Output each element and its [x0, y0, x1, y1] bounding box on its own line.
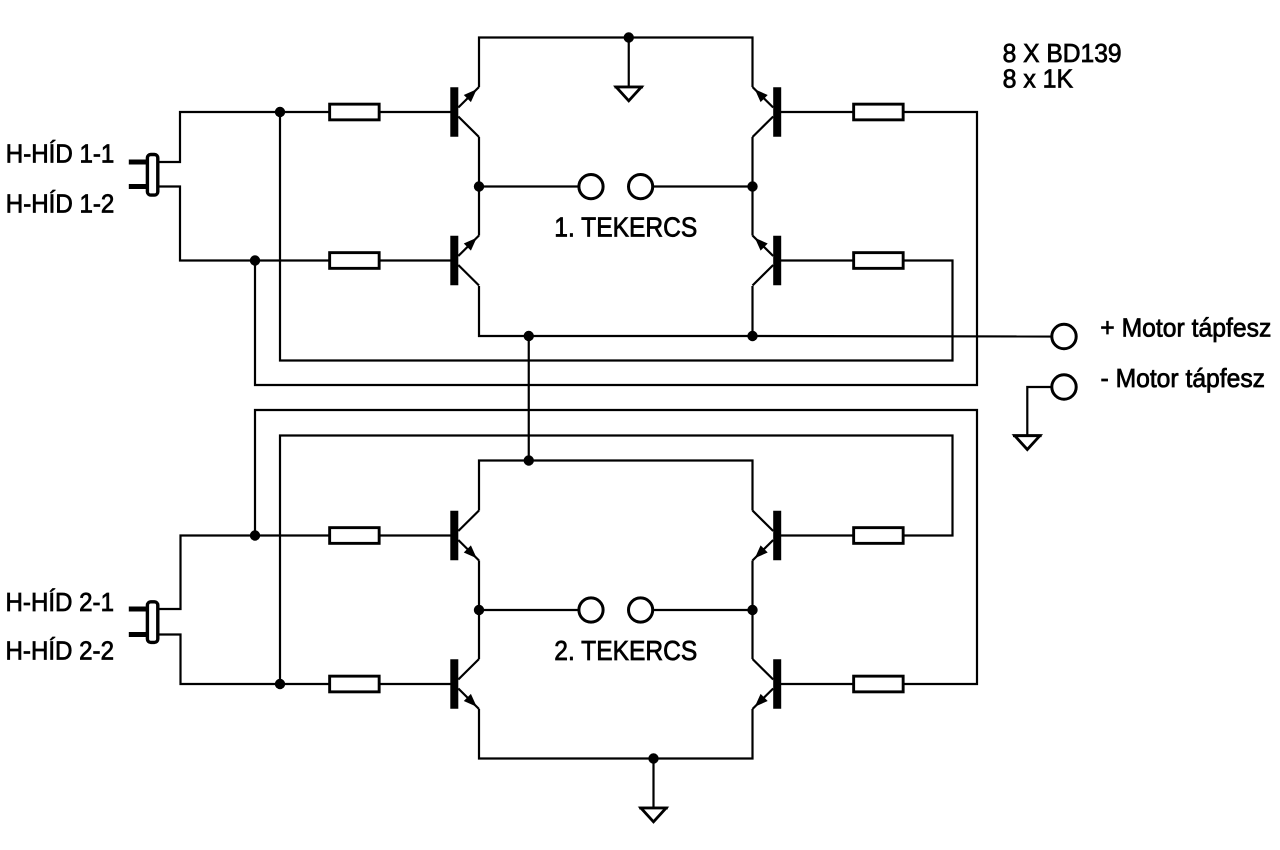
wire coil 1 left terminal lead [479, 185, 579, 187]
node dot drive 1-1 junction [275, 107, 285, 117]
node dot coil 1 right [747, 181, 757, 191]
terminal circle coil 1 right [629, 175, 653, 199]
terminal circle - motor tapfesz [1052, 375, 1076, 399]
wire ground stem bottom [652, 759, 654, 809]
resistor R4 (1K base bottom-right) [854, 253, 904, 269]
terminal circle + motor tapfesz [1052, 324, 1076, 348]
ground symbol bottom [639, 808, 668, 822]
wire coil 2 left terminal lead [479, 609, 579, 611]
wire - motor to ground [1027, 387, 1051, 436]
ground symbol top [614, 87, 643, 101]
wire top rail bridge 1 with emitter verticals [479, 38, 753, 88]
node dot bottom rail ground tap [648, 753, 658, 763]
wire top rail bridge 2 with collector verticals [479, 461, 753, 511]
node dot coil 1 left [474, 181, 484, 191]
wire bottom rail bridge 2 with emitter verticals [479, 709, 753, 759]
svg-text:- Motor tápfesz: - Motor tápfesz [1101, 363, 1266, 393]
wire Q3 base to R3 [781, 111, 853, 113]
wire drive 1-2 from J1 to resistor R2 [158, 187, 329, 261]
wire link bridge1 bottom rail to bridge2 top rail [528, 336, 530, 461]
connector J1 (H-HID 1 input) [129, 155, 158, 196]
resistor R8 (1K base bottom-right bridge 2) [854, 676, 904, 692]
resistor R1 (1K base top-left) [330, 104, 380, 120]
svg-text:H-HÍD 2-2: H-HÍD 2-2 [6, 636, 115, 666]
wire R1 to Q1 base [381, 111, 451, 113]
resistor R7 (1K base top-right bridge 2) [854, 528, 904, 544]
svg-text:H-HÍD 1-2: H-HÍD 1-2 [6, 188, 115, 218]
wire bottom rail bridge 1 (+ supply) with collector verticals [479, 286, 753, 336]
wire left vertical Q5 to coil node 2 [478, 561, 480, 660]
node dot drive 1-2 junction [250, 255, 260, 265]
wire coil 1 right terminal lead [653, 185, 753, 187]
svg-text:8 x 1K: 8 x 1K [1003, 64, 1074, 94]
node dot bottom rail bridge 1 to bridge 2 link [524, 331, 534, 341]
resistor R6 (1K base bottom-left bridge 2) [330, 676, 380, 692]
resistor R5 (1K base top-left bridge 2) [330, 528, 380, 544]
svg-text:+ Motor tápfesz: + Motor tápfesz [1100, 313, 1271, 343]
resistor R2 (1K base bottom-left) [330, 253, 380, 269]
terminal circle coil 2 left [579, 598, 603, 622]
wire drive 1-1 from J1 to resistor R1 [158, 112, 329, 162]
transistor Q5 (BD139 top-left, bridge 2) [450, 511, 479, 561]
wire Q7 base to R7 [781, 534, 853, 536]
node dot coil 2 left [474, 605, 484, 615]
transistor Q2 (BD139 bottom-left, bridge 1) [450, 236, 479, 286]
terminal circle coil 1 left [579, 175, 603, 199]
wire R2 to Q2 base [381, 259, 451, 261]
wire left collector vertical Q1 to coil node [478, 137, 480, 236]
wire drive 2-2 cross route to R7 [280, 436, 953, 685]
wire drive 1-2 cross route to R3 [255, 112, 977, 385]
terminal circle coil 2 right [629, 598, 653, 622]
wire Q8 base to R8 [781, 683, 853, 685]
wire drive 1-1 cross route to R4 [280, 112, 953, 361]
wire right vertical Q7 to coil node 2 [751, 561, 753, 660]
wire drive 2-1 from J2 to resistor R5 [158, 536, 329, 610]
svg-text:H-HÍD 1-1: H-HÍD 1-1 [6, 138, 115, 168]
node dot bottom rail to + motor line [747, 331, 757, 341]
wire Q4 base to R4 [781, 259, 853, 261]
transistor Q3 (BD139 top-right, bridge 1) [753, 87, 782, 137]
transistor Q1 (BD139 top-left, bridge 1) [450, 87, 479, 137]
node dot drive 2-1 junction [250, 530, 260, 540]
svg-text:2. TEKERCS: 2. TEKERCS [554, 635, 697, 666]
node dot drive 2-2 junction [275, 679, 285, 689]
connector J2 (H-HID 2 input) [129, 602, 158, 643]
wire R6 to Q6 base [381, 683, 451, 685]
svg-text:H-HÍD 2-1: H-HÍD 2-1 [6, 587, 115, 617]
wire right collector vertical Q3 to coil node [751, 137, 753, 236]
transistor Q7 (BD139 top-right, bridge 2) [753, 511, 782, 561]
wire + motor supply line [753, 335, 1052, 338]
resistor R3 (1K base top-right) [854, 104, 904, 120]
transistor Q8 (BD139 bottom-right, bridge 2) [753, 659, 782, 709]
transistor Q4 (BD139 bottom-right, bridge 1) [753, 236, 782, 286]
ground symbol - motor [1013, 436, 1042, 450]
ground top (GND rail of H-bridge 1) [628, 38, 630, 88]
node dot top rail bridge 2 link tap [524, 455, 534, 465]
svg-text:1. TEKERCS: 1. TEKERCS [554, 212, 697, 243]
wire R5 to Q5 base [381, 534, 451, 536]
wire coil 2 right terminal lead [653, 609, 753, 611]
transistor Q6 (BD139 bottom-left, bridge 2) [450, 659, 479, 709]
wire drive 2-2 from J2 to resistor R6 [158, 635, 329, 685]
wire drive 2-1 cross route to R8 [255, 410, 977, 684]
node dot coil 2 right [747, 605, 757, 615]
node dot top rail / ground tap [624, 32, 634, 42]
